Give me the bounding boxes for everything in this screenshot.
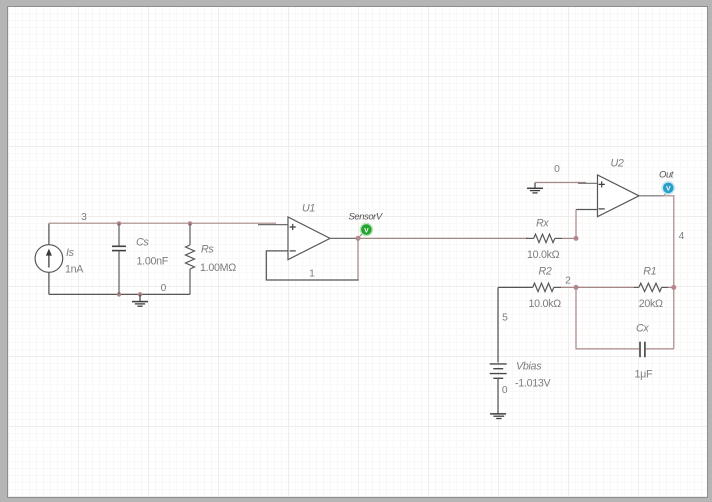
probe Out (blue) xyxy=(661,181,675,195)
svg-text:5: 5 xyxy=(502,313,508,324)
svg-text:U1: U1 xyxy=(302,203,315,215)
junction dot cap top xyxy=(117,221,122,226)
svg-text:0: 0 xyxy=(161,283,167,294)
junction dot node 2 xyxy=(574,285,579,290)
svg-text:3: 3 xyxy=(81,212,87,223)
node SensorV junction dot xyxy=(356,236,361,241)
wire net5 horizontal + R2 left lead xyxy=(498,286,533,288)
junction dot ground tap xyxy=(138,292,143,297)
wire U2 output corner xyxy=(660,196,674,349)
wire net 0 bottom horizontal xyxy=(49,293,190,295)
wire feedback gray part xyxy=(266,251,358,280)
svg-text:R2: R2 xyxy=(539,266,552,278)
svg-text:SensorV: SensorV xyxy=(349,212,384,223)
ground GND3 xyxy=(490,414,506,419)
svg-text:1: 1 xyxy=(309,269,315,280)
wire R2 to node 2 xyxy=(561,286,576,288)
svg-text:Cx: Cx xyxy=(636,323,649,335)
resistor Rx xyxy=(526,234,562,242)
svg-text:10.0kΩ: 10.0kΩ xyxy=(529,298,562,310)
wire node2 to R1 xyxy=(576,286,634,288)
wire ground to U2 + xyxy=(535,182,586,184)
ground GND2 xyxy=(527,183,543,193)
probe tail xyxy=(360,234,363,237)
battery Vbias xyxy=(490,364,507,378)
svg-text:R1: R1 xyxy=(643,265,656,277)
current source Is xyxy=(35,245,63,273)
op-amp U1 xyxy=(258,217,358,260)
junction dot Rx right xyxy=(574,236,579,241)
wire left vertical (Is pins) xyxy=(48,224,50,295)
capacitor Cx xyxy=(640,342,645,358)
junction dot cap bottom xyxy=(117,292,122,297)
svg-text:Cs: Cs xyxy=(136,237,149,249)
svg-text:1μF: 1μF xyxy=(635,369,654,381)
ground GND1 xyxy=(132,294,148,306)
junction dot R1 right xyxy=(671,285,676,290)
op-amp U2 xyxy=(578,175,664,217)
wire battery to ground xyxy=(497,378,499,413)
svg-text:-1.013V: -1.013V xyxy=(515,378,552,390)
wire net5 vertical xyxy=(497,287,499,362)
wire minus corner down to Rx node xyxy=(575,210,577,239)
svg-text:0: 0 xyxy=(502,385,508,396)
junction dot Rs top xyxy=(188,221,193,226)
svg-text:4: 4 xyxy=(679,231,685,242)
svg-text:Vbias: Vbias xyxy=(516,361,542,373)
svg-text:Is: Is xyxy=(66,247,75,259)
resistor Rs xyxy=(186,224,195,295)
resistor R1 xyxy=(634,283,668,291)
wire bottom loop right xyxy=(646,348,674,350)
svg-text:V: V xyxy=(364,227,369,234)
wire SensorV to Rx xyxy=(358,237,528,239)
svg-text:Rx: Rx xyxy=(536,218,549,230)
wire node2 down and bottom loop left xyxy=(576,287,639,349)
svg-text:0: 0 xyxy=(554,164,560,175)
svg-text:Out: Out xyxy=(659,170,674,181)
svg-text:20kΩ: 20kΩ xyxy=(639,298,663,310)
probe tail out xyxy=(664,193,666,195)
capacitor Cs xyxy=(112,224,126,295)
svg-text:1nA: 1nA xyxy=(65,264,84,276)
svg-text:V: V xyxy=(666,186,671,193)
wire net 3 top horizontal xyxy=(49,222,276,224)
svg-text:1.00nF: 1.00nF xyxy=(137,256,169,268)
wire Rx to node xyxy=(562,237,576,239)
svg-text:1.00MΩ: 1.00MΩ xyxy=(200,262,236,274)
svg-text:2: 2 xyxy=(565,276,571,287)
svg-text:10.0kΩ: 10.0kΩ xyxy=(527,249,560,261)
svg-text:Rs: Rs xyxy=(201,244,214,256)
probe SensorV (green) xyxy=(360,223,374,237)
wire U2 minus stub xyxy=(576,209,598,211)
svg-text:U2: U2 xyxy=(611,158,624,170)
resistor R2 xyxy=(533,283,561,291)
wire feedback (net 1) xyxy=(357,240,359,280)
wire R1 to right vertical xyxy=(668,286,674,288)
